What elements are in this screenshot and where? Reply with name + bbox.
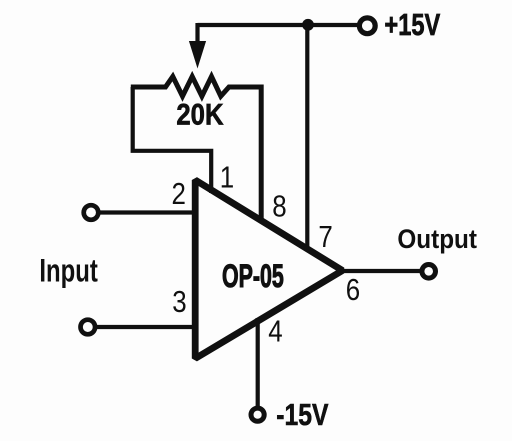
svg-text:-15V: -15V — [276, 397, 329, 431]
svg-text:1: 1 — [220, 159, 234, 193]
svg-text:7: 7 — [318, 219, 332, 253]
svg-text:8: 8 — [272, 188, 286, 222]
svg-text:2: 2 — [171, 176, 185, 210]
svg-text:3: 3 — [172, 284, 186, 318]
svg-text:4: 4 — [268, 313, 282, 347]
svg-text:OP-05: OP-05 — [222, 258, 284, 294]
svg-text:+15V: +15V — [384, 7, 440, 42]
svg-text:20K: 20K — [176, 97, 223, 130]
svg-text:Input: Input — [39, 252, 98, 288]
svg-text:Output: Output — [397, 225, 477, 254]
svg-text:6: 6 — [346, 272, 360, 306]
